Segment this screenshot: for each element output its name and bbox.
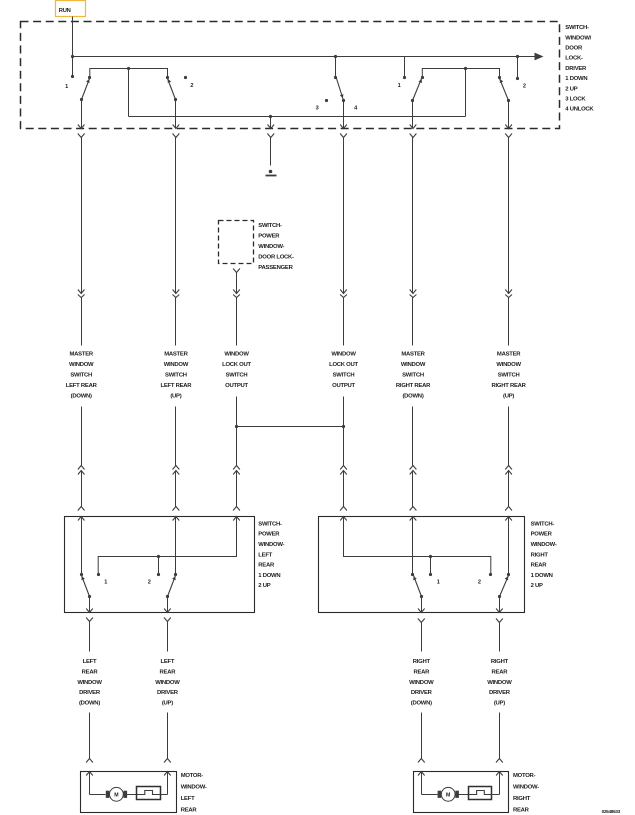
connector chevron below master box x=175.9: [173, 134, 180, 138]
wire breaker to right lead: [492, 794, 500, 796]
svg-text:MASTER: MASTER: [164, 352, 188, 358]
motor brush left: [438, 791, 442, 798]
svg-text:2 UP: 2 UP: [531, 583, 543, 589]
connector inline down x=508.6: [508, 290, 510, 294]
node bridge junction right: [342, 425, 345, 428]
pin arrow output right-rear up: [496, 609, 503, 613]
node RUN ignition-feed box: [56, 1, 86, 17]
svg-text:REAR: REAR: [258, 563, 275, 569]
wire column to label x=175.9: [175, 298, 177, 346]
svg-text:DOOR LOCK-: DOOR LOCK-: [258, 254, 294, 260]
node contact A left box: [80, 573, 83, 576]
svg-text:LOCK OUT: LOCK OUT: [222, 362, 251, 368]
connector inline up x=508.6: [505, 466, 512, 470]
svg-text:WINDOW-: WINDOW-: [258, 542, 284, 548]
svg-text:DRIVER: DRIVER: [411, 690, 433, 696]
node pin 2 contact right pair: [516, 77, 519, 80]
node pivot S3: [342, 99, 345, 102]
node contact B left box: [174, 573, 177, 576]
pin arrow motor feed up-lead: [164, 772, 171, 776]
ground bar symbol: [266, 175, 277, 177]
wire lockout bridge: [237, 426, 344, 428]
svg-text:MOTOR-: MOTOR-: [513, 773, 536, 779]
connector chevron below master box x=81.2: [78, 134, 85, 138]
wire pin 1 contact stub left: [72, 57, 74, 77]
svg-text:REAR: REAR: [160, 669, 177, 675]
svg-text:WINDOW: WINDOW: [487, 680, 512, 686]
wire driver column upper x=89.5: [89, 622, 91, 652]
node pin 1 contact: [71, 75, 74, 78]
connector chevron above motor x=421.3: [418, 759, 425, 763]
wire bus feed to switch D contact: [335, 57, 337, 78]
svg-text:WINDOW-: WINDOW-: [531, 542, 557, 548]
connector chevron below master box x=413.0: [410, 134, 417, 138]
svg-text:WINDOW: WINDOW: [164, 362, 189, 368]
pin arrow into left box B: [173, 517, 180, 521]
node contact 1 left box: [97, 573, 100, 576]
svg-text:1: 1: [104, 580, 107, 586]
svg-text:MOTOR-: MOTOR-: [181, 773, 204, 779]
wire brush to breaker: [127, 794, 137, 796]
svg-text:SWITCH: SWITCH: [498, 373, 520, 379]
wire column to label x=508.6: [508, 298, 510, 346]
wire RUN feed to bus: [72, 17, 74, 57]
wire S1 output to pin: [81, 100, 83, 129]
wire E inside right box: [412, 517, 414, 575]
svg-text:WINDOW-: WINDOW-: [181, 785, 207, 791]
svg-text:WINDOW: WINDOW: [77, 680, 102, 686]
switch blade right-rear up: [500, 576, 509, 597]
svg-text:SWITCH: SWITCH: [333, 373, 355, 379]
pin arrow output left-rear down: [86, 609, 93, 613]
wire tie stub to contact 2: [158, 557, 160, 575]
op passenger lockout switch box (dashed): [219, 221, 254, 264]
svg-text:LOCK OUT: LOCK OUT: [329, 362, 358, 368]
svg-text:RIGHT: RIGHT: [413, 659, 431, 665]
wire column B upper: [175, 138, 177, 290]
svg-text:DRIVER: DRIVER: [157, 690, 179, 696]
node pivot left-rear down: [88, 595, 91, 598]
switch blade S1 (window down left): [82, 79, 90, 100]
wire S4 output to pin: [412, 101, 414, 129]
svg-text:WINDOW: WINDOW: [409, 680, 434, 686]
pin arrow into left box A: [78, 517, 85, 521]
pin arrow motor feed down-lead: [86, 772, 93, 776]
svg-text:LEFT REAR: LEFT REAR: [160, 383, 192, 389]
wire D tie inside right box: [344, 517, 491, 575]
svg-text:WINDOW: WINDOW: [224, 352, 249, 358]
svg-text:SWITCH: SWITCH: [226, 373, 248, 379]
node pivot S5: [507, 99, 510, 102]
svg-text:LEFT: LEFT: [258, 552, 272, 558]
svg-text:SWITCH: SWITCH: [165, 373, 187, 379]
connector chevron below passenger box: [233, 269, 240, 273]
svg-text:(UP): (UP): [494, 701, 505, 707]
svg-text:(UP): (UP): [170, 394, 181, 400]
op switch-power window-right rear box: [319, 517, 525, 613]
svg-text:WINDOW: WINDOW: [155, 680, 180, 686]
node tie junction right box: [429, 555, 432, 558]
wire breaker to right lead: [161, 794, 168, 796]
svg-text:SWITCH-: SWITCH-: [565, 25, 589, 31]
svg-text:REAR: REAR: [181, 807, 198, 813]
node contact F right box: [507, 573, 510, 576]
pin arrow into right box D: [340, 517, 347, 521]
wire pin 1 stub right pair: [404, 57, 406, 78]
node bus junction at RUN feed: [71, 55, 74, 58]
node contact 1 right box: [429, 573, 432, 576]
connector chevron below right box pin2: [496, 619, 503, 623]
svg-text:SWITCH: SWITCH: [402, 373, 424, 379]
svg-text:WINDOW: WINDOW: [401, 362, 426, 368]
wire driver column lower x=499.4: [499, 713, 501, 759]
wire driver column upper x=167.4: [167, 622, 169, 652]
wire power bus: [73, 56, 536, 58]
svg-text:RUN: RUN: [59, 8, 71, 14]
svg-text:(DOWN): (DOWN): [402, 394, 423, 400]
svg-text:2: 2: [190, 83, 193, 89]
wire motor lead left vertical: [89, 772, 91, 795]
svg-text:SWITCH-: SWITCH-: [258, 521, 282, 527]
node pin 2 dead contact: [184, 76, 187, 79]
node tie junction left pair: [127, 67, 130, 70]
svg-text:REAR: REAR: [492, 669, 509, 675]
svg-text:(DOWN): (DOWN): [411, 701, 432, 707]
svg-text:RIGHT REAR: RIGHT REAR: [492, 383, 527, 389]
svg-text:3: 3: [316, 105, 319, 111]
svg-text:DRIVER: DRIVER: [565, 66, 587, 72]
connector inline up x=81.2: [78, 466, 85, 470]
wire column to label x=413.0: [412, 298, 414, 346]
node pivot left-rear up: [166, 595, 169, 598]
wire column C below label: [236, 397, 238, 466]
connector inline down x=236.5: [236, 290, 238, 294]
node pivot S2: [174, 98, 177, 101]
svg-text:DRIVER: DRIVER: [79, 690, 101, 696]
wire column D below label: [343, 397, 345, 466]
svg-text:2 UP: 2 UP: [258, 583, 270, 589]
svg-text:1: 1: [65, 84, 68, 90]
connector inline down x=343.5: [343, 290, 345, 294]
wire S3 output to pin: [343, 101, 345, 129]
svg-text:REAR: REAR: [413, 669, 430, 675]
motor brush left: [106, 791, 110, 798]
node splice dot: [269, 170, 273, 174]
wire column C upper: [236, 273, 238, 290]
svg-text:RIGHT: RIGHT: [491, 659, 509, 665]
wire column below label x=413.0: [412, 407, 414, 466]
wire motor lead right vertical: [499, 772, 501, 795]
wire column A upper: [81, 138, 83, 290]
svg-text:RIGHT REAR: RIGHT REAR: [396, 383, 431, 389]
switch blade S2 (window up left): [168, 79, 176, 100]
svg-text:LEFT: LEFT: [83, 659, 97, 665]
svg-text:SWITCH-: SWITCH-: [531, 521, 555, 527]
connector chevron above motor x=499.4: [496, 759, 503, 763]
switch blade S3 (right window down): [337, 79, 344, 101]
svg-text:(DOWN): (DOWN): [71, 394, 92, 400]
node pivot right-rear up: [498, 595, 501, 598]
svg-text:DOOR: DOOR: [565, 46, 583, 52]
pin arrow S1 output: [78, 125, 85, 129]
node contact E right box: [411, 573, 414, 576]
switch blade left-rear down: [82, 576, 90, 597]
wire driver column lower x=421.3: [421, 713, 423, 759]
wire brush to breaker: [459, 794, 469, 796]
svg-text:MASTER: MASTER: [497, 352, 521, 358]
motor box window-right rear: [414, 772, 509, 813]
switch blade left-rear up: [168, 576, 176, 597]
node contact dot switch D: [334, 76, 337, 79]
svg-text:(DOWN): (DOWN): [79, 701, 100, 707]
wire output left-rear up: [167, 597, 169, 613]
node bus junction feed pin2 stub: [516, 55, 519, 58]
connector inline up x=413.0: [410, 466, 417, 470]
svg-text:4 UNLOCK: 4 UNLOCK: [565, 107, 594, 113]
pin arrow S4 output: [410, 125, 417, 129]
svg-text:SWITCH: SWITCH: [70, 373, 92, 379]
motor box window-left rear: [81, 772, 177, 813]
svg-text:02548633: 02548633: [602, 809, 621, 814]
motor M armature circle: [441, 787, 455, 801]
connector chevron below left box pin2: [164, 618, 171, 622]
wire tie stub to contact 1 right box: [430, 557, 432, 575]
pin arrow into left box C: [233, 517, 240, 521]
svg-text:DRIVER: DRIVER: [489, 690, 511, 696]
circuit breaker box: [469, 787, 492, 800]
pin arrow lockout output: [268, 125, 275, 129]
wire B inside left box: [175, 517, 177, 575]
wire column below label x=175.9: [175, 407, 177, 466]
connector chevron below master box x=508.6: [505, 134, 512, 138]
svg-text:PASSENGER: PASSENGER: [258, 265, 293, 271]
wire column E upper: [412, 138, 414, 290]
circuit breaker box: [137, 787, 161, 800]
circuit breaker element: [469, 791, 492, 795]
wire lock line rise to right tie: [465, 69, 467, 117]
wire column F upper: [508, 138, 510, 290]
wire output right-rear down: [421, 597, 423, 613]
svg-text:SWITCH-: SWITCH-: [258, 223, 282, 229]
svg-text:MASTER: MASTER: [70, 352, 94, 358]
wire lock line drop from left tie: [128, 69, 130, 117]
node bus arrow terminal: [535, 53, 544, 61]
pin arrow into right box F: [505, 517, 512, 521]
svg-text:OUTPUT: OUTPUT: [225, 383, 248, 389]
svg-text:POWER: POWER: [258, 532, 280, 538]
node lock line junction: [269, 115, 272, 118]
pin arrow output left-rear up: [164, 609, 171, 613]
wire output right-rear up: [499, 597, 501, 613]
pin arrow S3 output: [340, 125, 347, 129]
svg-text:WINDOW: WINDOW: [69, 362, 94, 368]
svg-text:REAR: REAR: [513, 807, 530, 813]
svg-text:1: 1: [398, 83, 401, 89]
svg-text:WINDOW-: WINDOW-: [258, 244, 284, 250]
svg-text:RIGHT: RIGHT: [513, 796, 531, 802]
node contact dot left switch A: [88, 76, 91, 79]
wire driver column upper x=499.4: [499, 623, 501, 652]
node contact 2 right box: [489, 573, 492, 576]
pin arrow output right-rear down: [418, 609, 425, 613]
svg-text:2: 2: [148, 580, 151, 586]
svg-text:2: 2: [523, 84, 526, 90]
motor brush right: [124, 791, 128, 798]
node contact dot right switch F: [498, 76, 501, 79]
op switch-power window-left rear box: [65, 517, 255, 613]
connector chevron below right box pin1: [418, 619, 425, 623]
wire S5 output to pin: [508, 101, 510, 129]
svg-text:WINDOW-: WINDOW-: [513, 785, 539, 791]
wire driver column upper x=421.3: [421, 623, 423, 652]
wire column below label x=81.2: [81, 407, 83, 466]
motor M armature circle: [110, 787, 124, 801]
svg-text:(UP): (UP): [162, 701, 173, 707]
svg-text:M: M: [114, 793, 118, 799]
wire lockout output drop: [270, 117, 272, 129]
svg-text:WINDOW: WINDOW: [496, 362, 521, 368]
switch blade right-rear down: [414, 576, 422, 597]
pin arrow into right box E: [410, 517, 417, 521]
node contact dot right switch E: [421, 76, 424, 79]
node pivot right-rear down: [420, 595, 423, 598]
wire pin 2 stub right pair: [517, 57, 519, 79]
wire C tie inside left box: [98, 517, 236, 575]
wire lead to brush: [90, 794, 106, 796]
svg-text:3 LOCK: 3 LOCK: [565, 97, 586, 103]
wire column to label x=236.5: [236, 298, 238, 346]
op master switch box SWITCH-WINDOW/DOOR LOCK-DRIVER (dashed): [21, 22, 560, 129]
wire lead to brush: [422, 794, 438, 796]
node tie junction left box: [157, 555, 160, 558]
pin arrow motor feed up-lead: [496, 772, 503, 776]
wire F inside right box: [508, 517, 510, 575]
wire driver column lower x=167.4: [167, 713, 169, 759]
wire A inside left box: [81, 517, 83, 575]
svg-text:POWER: POWER: [531, 532, 553, 538]
connector inline up x=236.5: [233, 466, 240, 470]
node bus junction feed pin4 switch: [334, 55, 337, 58]
connector inline up x=175.9: [173, 466, 180, 470]
wire column to label x=81.2: [81, 298, 83, 346]
svg-text:LEFT REAR: LEFT REAR: [66, 383, 98, 389]
svg-text:1 DOWN: 1 DOWN: [258, 573, 280, 579]
wire right tie line: [422, 69, 499, 78]
wire left tie line: [90, 69, 168, 78]
wire driver column lower x=89.5: [89, 713, 91, 759]
wire S2 output to pin: [175, 100, 177, 129]
wire lockout to splice symbol: [270, 138, 272, 166]
connector inline up x=343.5: [340, 466, 347, 470]
node pivot S4: [411, 99, 414, 102]
wire column below label x=508.6: [508, 407, 510, 466]
node bridge junction left: [235, 425, 238, 428]
wire lock line horizontal: [129, 116, 466, 118]
connector chevron above motor x=167.4: [164, 759, 171, 763]
svg-text:1 DOWN: 1 DOWN: [565, 76, 587, 82]
svg-text:POWER: POWER: [258, 234, 280, 240]
node pin 1 contact right pair: [403, 76, 406, 79]
circuit breaker element: [137, 791, 160, 795]
node contact dot left switch B: [166, 76, 169, 79]
connector chevron below left box pin1: [86, 618, 93, 622]
node right tie junction: [464, 67, 467, 70]
connector chevron below master box x=343.5: [340, 134, 347, 138]
pin arrow S5 output: [505, 125, 512, 129]
pin arrow motor feed down-lead: [418, 772, 425, 776]
svg-text:REAR: REAR: [82, 669, 99, 675]
node pin 3 dead contact: [325, 99, 328, 102]
wire motor lead right vertical: [167, 772, 169, 795]
svg-text:RIGHT: RIGHT: [531, 552, 549, 558]
svg-text:1 DOWN: 1 DOWN: [531, 573, 553, 579]
wire motor lead left vertical: [421, 772, 423, 795]
switch blade S5 (right window up): [500, 79, 509, 101]
node pivot S1: [80, 98, 83, 101]
svg-text:REAR: REAR: [531, 563, 548, 569]
wire column to label x=343.5: [343, 298, 345, 346]
motor brush right: [455, 791, 459, 798]
connector inline down x=175.9: [175, 290, 177, 294]
svg-text:2 UP: 2 UP: [565, 86, 577, 92]
connector chevron above motor x=89.5: [86, 759, 93, 763]
svg-text:MASTER: MASTER: [401, 352, 425, 358]
svg-text:(UP): (UP): [503, 394, 514, 400]
svg-text:1: 1: [437, 579, 440, 585]
svg-text:M: M: [446, 793, 450, 799]
switch blade S4 (lock): [413, 79, 422, 101]
svg-text:LEFT: LEFT: [181, 796, 195, 802]
wire output left-rear down: [89, 597, 91, 613]
connector inline down x=81.2: [81, 290, 83, 294]
svg-text:LEFT: LEFT: [161, 659, 175, 665]
wire column D upper: [343, 138, 345, 290]
connector chevron below master box x=270.8: [267, 134, 274, 138]
svg-text:2: 2: [478, 579, 481, 585]
svg-text:LOCK-: LOCK-: [565, 56, 583, 62]
svg-text:WINDOW: WINDOW: [331, 352, 356, 358]
svg-text:OUTPUT: OUTPUT: [332, 383, 355, 389]
svg-text:WINDOW/: WINDOW/: [565, 35, 591, 41]
pin arrow S2 output: [173, 125, 180, 129]
connector inline down x=413.0: [412, 290, 414, 294]
node contact 2 left box: [157, 573, 160, 576]
